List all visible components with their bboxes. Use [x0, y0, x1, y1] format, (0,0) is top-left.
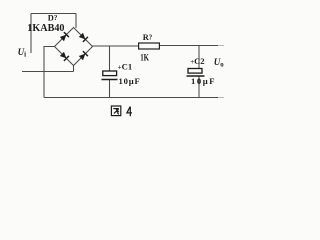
wire C1 top lead: [109, 46, 111, 71]
wire C1 bottom lead: [109, 80, 111, 98]
caption numeral 4: [127, 107, 132, 117]
resistor R? body: [139, 43, 160, 49]
wire Ui lower terminal to bridge bottom: [22, 71, 74, 73]
wire bridge bottom stub: [73, 66, 75, 72]
wire top from input to bridge top: [31, 13, 76, 15]
wire bridge left corner to ground vertical: [44, 47, 55, 98]
diode bridge arm bottom-left (anode left corner, cathode bottom): [60, 52, 69, 61]
svg-text:1K: 1K: [140, 52, 149, 62]
diode bridge arm bottom-right (anode bottom, cathode right corner): [79, 51, 88, 60]
svg-text:1KAB40: 1KAB40: [27, 23, 64, 34]
svg-text:R?: R?: [143, 33, 153, 42]
wire C2 bottom lead: [198, 76, 200, 98]
diode bridge arm top-right (anode top, cathode right corner): [79, 33, 88, 42]
wire bridge right corner to resistor: [93, 45, 139, 47]
svg-text:D?: D?: [48, 13, 58, 22]
capacitor C1 top plate: [103, 71, 117, 76]
capacitor C2 bottom plate: [187, 75, 205, 77]
wire ground rail tail fading: [218, 97, 224, 99]
capacitor C1 bottom plate: [102, 79, 118, 81]
wire resistor to output: [160, 45, 219, 47]
wire output top tail fading: [218, 45, 224, 47]
diode bridge arm top-left (anode left corner, cathode top): [60, 32, 69, 41]
svg-text:10µF: 10µF: [191, 76, 215, 86]
wire C2 top lead: [198, 46, 200, 69]
wire bottom ground rail: [44, 97, 218, 99]
svg-text:10µF: 10µF: [119, 76, 140, 86]
wire input terminal vertical left: [30, 14, 32, 54]
bridge diamond D? outline: [55, 28, 93, 66]
caption glyph 图 (hand drawn): [111, 106, 120, 116]
wire bridge top stub: [75, 14, 77, 29]
capacitor C2 top plate: [188, 69, 202, 74]
